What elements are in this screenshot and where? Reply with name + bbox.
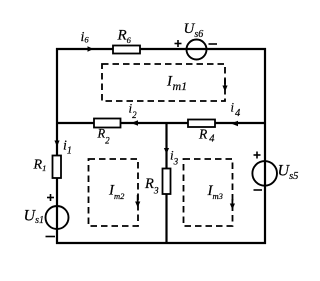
plus sign U_s5 (254, 152, 261, 159)
resistor R2 (94, 119, 121, 128)
wire middle branch vertical (165, 122, 167, 244)
mesh loop I_m3 dashed box (184, 159, 233, 226)
current arrow i3 (164, 148, 169, 154)
wire right vertical (264, 48, 266, 244)
current arrow i2 (131, 120, 138, 126)
voltage source U_s5 (252, 161, 277, 186)
mesh arrow I_m1 (222, 79, 227, 92)
mesh arrow I_m2 (135, 195, 140, 208)
wire middle horizontal (56, 122, 265, 124)
resistor R3 (163, 169, 171, 195)
voltage source U_s1 (46, 206, 69, 229)
resistor R6 (113, 46, 140, 54)
resistor R1 (53, 156, 62, 179)
plus sign U_s1 (47, 194, 54, 201)
voltage source U_s6 (187, 40, 207, 60)
plus sign U_s6 (175, 40, 182, 47)
current arrow i4 (231, 121, 238, 127)
mesh loop I_m1 dashed box (102, 64, 225, 101)
minus sign U_s5 (254, 189, 263, 191)
mesh loop I_m2 dashed box (89, 159, 139, 226)
minus sign U_s1 (46, 236, 56, 238)
current arrow i1 (54, 141, 59, 147)
wire top (node between i6/R6/Us6) (56, 48, 266, 50)
wire bottom (56, 242, 266, 244)
resistor R4 (188, 120, 215, 128)
minus sign U_s6 (209, 43, 218, 45)
current arrow i6 (88, 46, 94, 52)
mesh arrow I_m3 (230, 199, 235, 210)
wire left vertical (56, 48, 58, 244)
